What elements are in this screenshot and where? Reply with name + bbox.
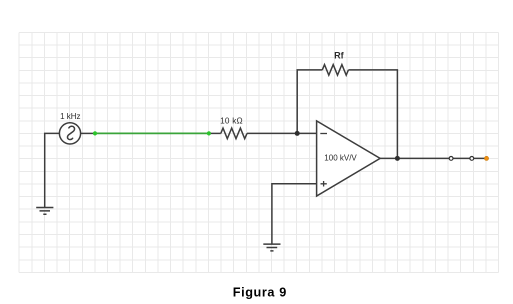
svg-text:100 kV/V: 100 kV/V: [324, 153, 357, 162]
svg-text:10 kΩ: 10 kΩ: [220, 117, 243, 126]
svg-text:Rf: Rf: [334, 51, 344, 61]
svg-text:1 kHz: 1 kHz: [60, 112, 80, 121]
svg-text:Figura 9: Figura 9: [233, 286, 287, 300]
